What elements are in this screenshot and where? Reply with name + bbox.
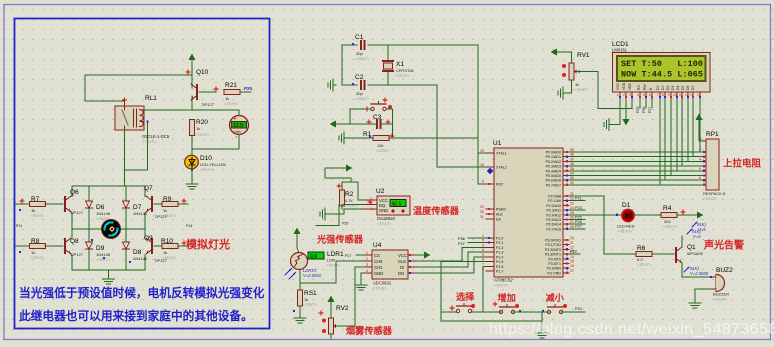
svg-text:G5CLE-1-DC5: G5CLE-1-DC5 <box>142 134 170 139</box>
svg-text:P1.0: P1.0 <box>496 237 503 241</box>
svg-text:减小: 减小 <box>546 292 565 303</box>
svg-text:P11: P11 <box>16 224 22 228</box>
svg-text:CRYSTAL: CRYSTAL <box>396 68 415 73</box>
svg-text:<TEXT>: <TEXT> <box>574 88 589 92</box>
wire <box>85 74 192 76</box>
transistor Q8 <box>65 238 71 254</box>
ground center <box>108 270 110 276</box>
wire Q1 collector up <box>681 236 683 247</box>
svg-text:ALE: ALE <box>496 213 503 217</box>
svg-text:DI: DI <box>400 265 404 270</box>
U1 right pin names <box>545 151 562 276</box>
svg-text:P21: P21 <box>575 197 582 201</box>
svg-text:1k: 1k <box>575 82 579 87</box>
svg-text:<TEXT>: <TEXT> <box>162 256 177 260</box>
svg-text:12.0: 12.0 <box>233 123 243 129</box>
svg-text:P0.7/AD7: P0.7/AD7 <box>546 183 561 187</box>
svg-text:30p: 30p <box>356 91 363 96</box>
svg-text:https://blog.csdn.net/weixin_5: https://blog.csdn.net/weixin_54873658 <box>489 321 774 338</box>
svg-text:1k: 1k <box>31 208 35 213</box>
bottom rail wire <box>72 269 145 271</box>
wire R2 bottom to DQ <box>341 206 343 209</box>
svg-text:VEE: VEE <box>628 82 632 90</box>
LCD pin labels <box>616 82 695 90</box>
svg-text:16: 16 <box>570 264 574 268</box>
svg-text:RST: RST <box>496 183 504 187</box>
svg-text:<TEXT>: <TEXT> <box>142 140 157 144</box>
svg-text:D6: D6 <box>96 204 105 211</box>
resistor R1 <box>373 136 389 141</box>
wire to common ground <box>541 312 543 330</box>
svg-text:29: 29 <box>480 205 484 209</box>
svg-text:R2: R2 <box>345 191 354 198</box>
svg-text:P3.1/TXD: P3.1/TXD <box>545 243 561 247</box>
resistor R2 <box>340 190 345 206</box>
svg-text:P0.5/AD5: P0.5/AD5 <box>546 174 561 178</box>
pot RV2 <box>319 296 349 340</box>
svg-text:1N4148: 1N4148 <box>133 256 148 261</box>
svg-text:TIP127: TIP127 <box>201 102 215 107</box>
wire <box>240 91 251 93</box>
P2.0 wire down to buttons <box>569 196 636 254</box>
svg-text:CS: CS <box>374 253 380 258</box>
svg-text:VSS: VSS <box>616 82 620 90</box>
annotation blue box <box>15 19 270 329</box>
svg-text:4: 4 <box>699 157 701 161</box>
svg-text:CH1: CH1 <box>374 265 383 270</box>
svg-text:39: 39 <box>570 148 574 152</box>
wire <box>85 75 125 101</box>
svg-text:<TEXT>: <TEXT> <box>376 149 391 153</box>
wire <box>299 306 301 315</box>
svg-text:1: 1 <box>366 251 368 255</box>
svg-text:U2: U2 <box>376 188 385 195</box>
svg-text:R7: R7 <box>31 196 40 203</box>
svg-text:4: 4 <box>366 269 368 273</box>
resistor RS1 <box>298 290 303 306</box>
svg-text:P3.5/T1: P3.5/T1 <box>548 262 561 266</box>
svg-text:RV2: RV2 <box>336 305 349 312</box>
svg-text:23: 23 <box>570 201 574 205</box>
wire <box>191 136 193 156</box>
svg-text:1k: 1k <box>163 208 167 213</box>
svg-text:VCC: VCC <box>398 253 407 258</box>
wire junction to CH0 <box>300 261 364 283</box>
svg-text:P2.3/A11: P2.3/A11 <box>546 209 561 213</box>
svg-text:C3: C3 <box>373 114 382 121</box>
svg-text:上拉电阻: 上拉电阻 <box>723 158 762 170</box>
svg-text:Q6: Q6 <box>70 189 79 196</box>
svg-text:<TEXT>: <TEXT> <box>713 298 728 302</box>
wire P1.0 stub <box>468 237 486 239</box>
wire LDR bottom <box>299 270 301 291</box>
svg-text:RV1: RV1 <box>577 52 590 59</box>
power arrow LDR <box>294 228 301 235</box>
svg-text:6: 6 <box>482 258 484 262</box>
svg-text:21: 21 <box>570 192 574 196</box>
svg-text:<TEXT>: <TEXT> <box>30 256 45 260</box>
svg-text:C2: C2 <box>355 74 364 81</box>
node junction <box>186 70 190 74</box>
svg-text:1N4148: 1N4148 <box>96 252 111 257</box>
wire LED to R4 <box>635 214 660 216</box>
svg-text:LM016L: LM016L <box>612 48 628 53</box>
svg-text:SET T:50 L:100: SET T:50 L:100 <box>621 59 703 69</box>
svg-text:<TEXT>: <TEXT> <box>200 168 215 172</box>
capacitor C3 <box>377 120 380 128</box>
svg-text:1: 1 <box>700 137 702 141</box>
U1 right pin numbers <box>570 148 574 273</box>
svg-text:1k: 1k <box>163 250 167 255</box>
svg-text:9: 9 <box>482 180 484 184</box>
svg-text:D2: D2 <box>666 86 670 90</box>
svg-text:RS1: RS1 <box>304 290 317 297</box>
wire relay switch to bridge rail <box>124 130 126 186</box>
svg-text:P3.0/RXD: P3.0/RXD <box>545 239 561 243</box>
svg-text:ADC0832: ADC0832 <box>373 281 392 286</box>
svg-text:P0.6/AD6: P0.6/AD6 <box>546 179 561 183</box>
svg-text:3: 3 <box>629 93 631 97</box>
wire buzzer to ground <box>695 289 712 300</box>
resistor R9 <box>154 203 162 205</box>
svg-text:1k: 1k <box>31 250 35 255</box>
diode column D9 <box>88 229 90 241</box>
wires button row <box>483 266 501 312</box>
svg-text:P33: P33 <box>570 250 577 254</box>
LED D10 <box>185 155 226 172</box>
svg-text:R21: R21 <box>225 82 237 89</box>
svg-text:<TEXT>: <TEXT> <box>377 222 392 226</box>
power arrow left VCC <box>330 121 337 128</box>
wire RV1 wiper to VEE <box>578 72 632 109</box>
svg-text:11: 11 <box>570 241 574 245</box>
svg-text:NOW T:44.5 L:065: NOW T:44.5 L:065 <box>621 70 703 80</box>
resistor R6 <box>636 252 652 257</box>
svg-text:3: 3 <box>370 197 372 201</box>
svg-text:R9: R9 <box>163 196 172 203</box>
H-bridge top rail wire <box>72 186 145 195</box>
diode column D6 <box>88 186 90 200</box>
svg-text:Q10: Q10 <box>196 69 209 76</box>
voltmeter <box>230 116 249 142</box>
svg-text:TIP127: TIP127 <box>70 210 84 215</box>
probe label V=5 top <box>687 229 701 239</box>
svg-text:P0.4/AD4: P0.4/AD4 <box>546 169 561 173</box>
P0 bus wires to pull-up and LCD <box>569 152 704 185</box>
svg-text:2: 2 <box>482 239 484 243</box>
svg-text:1k: 1k <box>225 96 229 101</box>
wire GND U2 <box>328 209 364 214</box>
svg-text:+: + <box>234 116 237 122</box>
wire C1-C2 left <box>341 45 343 85</box>
svg-text:-: - <box>236 135 238 141</box>
svg-text:4: 4 <box>482 248 484 252</box>
svg-text:4: 4 <box>637 93 639 97</box>
svg-text:当光强低于预设值时候，电机反转模拟光强变化: 当光强低于预设值时候，电机反转模拟光强变化 <box>19 286 265 300</box>
svg-text:P2.5/A13: P2.5/A13 <box>546 218 561 222</box>
ground bar left of R1 <box>345 137 373 139</box>
node <box>146 120 148 122</box>
wire VDD power down arrow <box>625 99 627 119</box>
svg-text:9: 9 <box>668 93 670 97</box>
svg-text:1: 1 <box>370 207 372 211</box>
wire Q1 emitter to buzzer <box>682 263 712 277</box>
svg-text:<TEXT>: <TEXT> <box>162 214 177 218</box>
wire C3 to R1 node <box>392 124 394 138</box>
svg-text:R4: R4 <box>663 205 672 212</box>
U1 left pin names <box>496 152 507 274</box>
svg-text:2: 2 <box>366 257 368 261</box>
svg-text:GND: GND <box>374 271 383 276</box>
svg-text:<TEXT>: <TEXT> <box>637 263 652 267</box>
wire XTAL1 <box>368 45 486 153</box>
wire button right <box>387 109 393 124</box>
svg-text:25: 25 <box>570 211 574 215</box>
wire button left <box>350 109 371 124</box>
P2 stub wires with labels <box>569 201 585 229</box>
ground <box>320 208 328 220</box>
svg-text:C1: C1 <box>355 34 364 41</box>
svg-text:P37: P37 <box>458 242 465 246</box>
U1 left pin stubs <box>486 153 494 271</box>
svg-text:P26: P26 <box>575 220 582 224</box>
svg-text:R20: R20 <box>196 119 208 126</box>
svg-text:31: 31 <box>480 215 484 219</box>
svg-text:P3.6/WR: P3.6/WR <box>547 267 562 271</box>
wire CS stub <box>356 254 364 256</box>
svg-text:<TEXT>: <TEXT> <box>618 230 633 234</box>
voltage probe marker <box>487 168 493 174</box>
svg-text:38: 38 <box>570 153 574 157</box>
svg-text:温度传感器: 温度传感器 <box>413 205 460 216</box>
svg-text:P1.4: P1.4 <box>496 255 503 259</box>
svg-text:D0: D0 <box>656 86 660 90</box>
svg-text:R6: R6 <box>637 245 646 252</box>
svg-text:D7: D7 <box>133 204 142 211</box>
svg-text:Q8: Q8 <box>70 238 79 245</box>
svg-text:P0.0/AD0: P0.0/AD0 <box>546 151 561 155</box>
svg-text:<TEXT>: <TEXT> <box>355 97 370 101</box>
svg-text:27: 27 <box>570 220 574 224</box>
svg-text:GND: GND <box>379 208 388 213</box>
svg-text:MPSA06: MPSA06 <box>687 251 704 256</box>
svg-text:1: 1 <box>482 234 484 238</box>
svg-text:LED-YELLOW: LED-YELLOW <box>200 162 226 167</box>
LCD LCD1 <box>612 41 710 92</box>
svg-text:P1.6: P1.6 <box>496 265 503 269</box>
svg-text:P1.3: P1.3 <box>496 251 503 255</box>
ground <box>294 315 306 323</box>
svg-text:22: 22 <box>570 197 574 201</box>
svg-text:D8: D8 <box>133 249 142 256</box>
pot RV1 <box>551 49 590 93</box>
svg-text:1N4148: 1N4148 <box>96 211 111 216</box>
svg-text:X1: X1 <box>396 61 404 68</box>
svg-text:17: 17 <box>570 269 574 273</box>
microcontroller U1 <box>493 140 563 288</box>
svg-text:42.5: 42.5 <box>392 202 402 208</box>
node junction <box>123 98 127 102</box>
svg-text:P25: P25 <box>575 215 582 219</box>
wire base <box>199 91 216 93</box>
svg-text:300: 300 <box>664 219 671 224</box>
svg-text:P1.1: P1.1 <box>496 241 503 245</box>
wire R2 top feed <box>342 182 364 200</box>
right rail wire <box>144 213 146 237</box>
transistor Q7 <box>146 196 152 212</box>
wire coil top to emitter node <box>145 109 239 111</box>
svg-text:2: 2 <box>699 148 701 152</box>
LCD pin stubs <box>620 92 700 99</box>
svg-text:D7: D7 <box>691 86 695 90</box>
svg-text:VDD: VDD <box>622 82 626 90</box>
U1 right pin stubs P0 <box>563 152 569 273</box>
wire R6 to Q1 base <box>652 253 674 255</box>
svg-text:3: 3 <box>482 243 484 247</box>
ground <box>186 181 198 189</box>
svg-text:6: 6 <box>699 167 701 171</box>
svg-text:6: 6 <box>649 93 651 97</box>
wire <box>191 60 193 85</box>
svg-text:P3.4/T0: P3.4/T0 <box>548 257 561 261</box>
svg-text:14: 14 <box>570 255 574 259</box>
svg-text:<TEXT>: <TEXT> <box>30 214 45 218</box>
svg-text:1k: 1k <box>196 126 200 131</box>
diode column D7 <box>125 186 127 200</box>
svg-text:AT89C52: AT89C52 <box>494 278 513 283</box>
wire DI to P1 <box>416 252 486 267</box>
svg-text:P35: P35 <box>342 222 348 226</box>
crystal X1 <box>383 45 415 85</box>
left rail wire <box>71 213 73 237</box>
power arrow VCC U4 <box>416 254 424 256</box>
svg-text:CH0: CH0 <box>374 259 383 264</box>
svg-text:10k: 10k <box>377 143 383 148</box>
svg-text:4.7k: 4.7k <box>345 198 353 203</box>
wire DO to P1 <box>416 257 486 273</box>
capacitor C1 <box>342 44 357 46</box>
svg-text:EA: EA <box>496 218 501 222</box>
svg-text:28: 28 <box>570 225 574 229</box>
resistor pack RP1 <box>696 114 727 202</box>
svg-text:P36: P36 <box>458 237 465 241</box>
svg-text:U1: U1 <box>493 140 502 147</box>
svg-text:BUZ2: BUZ2 <box>716 267 733 274</box>
svg-text:P1.5: P1.5 <box>496 260 503 264</box>
resistor R4 <box>661 213 677 218</box>
LED D1 <box>617 202 635 234</box>
svg-text:<TEXT>: <TEXT> <box>395 74 410 78</box>
resistor R8 <box>16 245 30 247</box>
svg-text:Q9: Q9 <box>144 235 153 242</box>
wire RV1 bottom to ground <box>566 80 572 93</box>
svg-text:V=5: V=5 <box>693 234 701 239</box>
svg-text:P3.7/RD: P3.7/RD <box>547 271 561 275</box>
svg-text:15: 15 <box>570 260 574 264</box>
svg-text:模拟灯光: 模拟灯光 <box>186 237 230 251</box>
diode column D8 <box>125 229 127 241</box>
probe label V=2.5 <box>684 266 709 276</box>
svg-text:<TEXT>: <TEXT> <box>494 284 509 288</box>
wire R4 to power <box>677 214 697 216</box>
svg-text:33: 33 <box>570 176 574 180</box>
svg-text:DO: DO <box>398 271 405 276</box>
svg-text:10: 10 <box>570 236 574 240</box>
svg-text:D6: D6 <box>686 86 690 90</box>
svg-text:RS: RS <box>637 85 641 90</box>
svg-text:19: 19 <box>480 149 484 153</box>
svg-text:D3: D3 <box>671 86 675 90</box>
transistor Q6 <box>65 196 71 212</box>
svg-text:<TEXT>: <TEXT> <box>326 264 341 268</box>
wire RST <box>389 138 486 184</box>
svg-text:P2.4/A12: P2.4/A12 <box>546 213 561 217</box>
svg-text:P2.2/A10: P2.2/A10 <box>546 204 561 208</box>
svg-text:Q1: Q1 <box>687 244 696 251</box>
motor <box>72 220 145 239</box>
svg-text:D5: D5 <box>681 86 685 90</box>
svg-text:TIP127: TIP127 <box>70 252 84 257</box>
svg-text:32: 32 <box>570 181 574 185</box>
svg-text:35: 35 <box>570 167 574 171</box>
svg-text:P10: P10 <box>575 307 582 311</box>
svg-text:26: 26 <box>570 216 574 220</box>
ADC U4 <box>364 242 416 291</box>
wire CLK to P1 <box>416 247 486 261</box>
svg-text:P26: P26 <box>642 107 646 113</box>
power arrow right net <box>346 165 353 172</box>
temp sensor U2 <box>364 188 410 226</box>
U1 left pin numbers <box>480 149 484 271</box>
svg-text:P0.2/AD2: P0.2/AD2 <box>546 160 561 164</box>
wire <box>191 169 193 182</box>
svg-text:P0.1/AD1: P0.1/AD1 <box>546 155 561 159</box>
P0 pin squares <box>566 151 568 274</box>
svg-text:XTAL1: XTAL1 <box>496 152 507 156</box>
svg-text:RL1: RL1 <box>145 95 157 102</box>
svg-text:P14: P14 <box>186 224 192 228</box>
svg-text:1: 1 <box>617 93 619 97</box>
ground left <box>328 79 336 91</box>
wire coil bottom <box>125 123 148 170</box>
svg-text:3: 3 <box>366 263 368 267</box>
svg-text:RW: RW <box>643 84 647 90</box>
svg-text:5: 5 <box>643 93 645 97</box>
resistor R10 <box>154 245 162 247</box>
svg-text:30: 30 <box>480 210 484 214</box>
svg-text:P0.3/AD3: P0.3/AD3 <box>546 165 561 169</box>
resistor R7 <box>16 203 30 205</box>
capacitor C2 <box>342 84 357 86</box>
reset button <box>371 102 386 111</box>
svg-text:P2.0/A8: P2.0/A8 <box>548 195 561 199</box>
svg-text:R10: R10 <box>161 238 173 245</box>
svg-text:37: 37 <box>570 157 574 161</box>
svg-text:LDR: LDR <box>327 258 335 263</box>
svg-text:<TEXT>: <TEXT> <box>373 287 388 291</box>
svg-text:36: 36 <box>570 162 574 166</box>
svg-text:P23: P23 <box>575 206 582 210</box>
svg-text:XTAL2: XTAL2 <box>496 166 507 170</box>
svg-text:D9: D9 <box>96 245 105 252</box>
svg-text:光强传感器: 光强传感器 <box>316 234 364 245</box>
RS RW E stubs with labels <box>639 99 641 108</box>
svg-text:<TEXT>: <TEXT> <box>303 303 318 307</box>
svg-text:D1: D1 <box>661 86 665 90</box>
svg-text:P3.3/INT1: P3.3/INT1 <box>545 253 561 257</box>
svg-text:<TEXT>: <TEXT> <box>355 57 370 61</box>
svg-text:U4: U4 <box>373 242 382 249</box>
